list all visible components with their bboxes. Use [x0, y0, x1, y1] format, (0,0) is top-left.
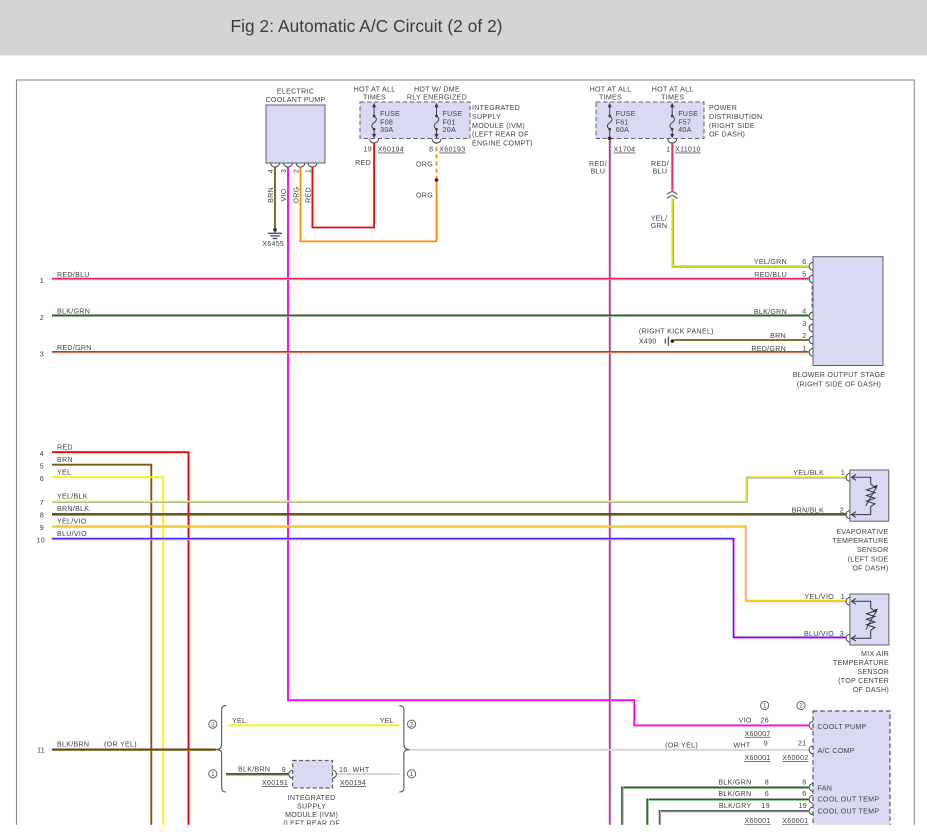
power distribution location note: [709, 104, 762, 139]
svg-text:HOT AT ALL: HOT AT ALL: [354, 85, 396, 93]
variant 2 marker right: [408, 720, 416, 728]
blower pin 5: [802, 270, 813, 283]
svg-text:BRN: BRN: [770, 332, 786, 340]
svg-text:8: 8: [429, 146, 433, 154]
svg-text:3: 3: [802, 320, 806, 328]
svg-text:8: 8: [802, 779, 806, 787]
svg-text:OF DASH): OF DASH): [852, 564, 888, 572]
svg-text:(OR YEL): (OR YEL): [665, 742, 698, 750]
harness brace left: [216, 706, 226, 792]
svg-text:SUPPLY: SUPPLY: [472, 113, 501, 121]
svg-text:RED: RED: [355, 159, 371, 167]
wire BLK/GRN to fan pin 8: [621, 787, 809, 832]
svg-text:X6455: X6455: [262, 240, 284, 248]
wire RED pump pin 1 to fuse F08: [304, 143, 375, 227]
wire BLK/GRN to cool out temp pin 6: [646, 798, 808, 832]
svg-text:MODULE (IVM): MODULE (IVM): [472, 122, 525, 130]
node 8 / wire BRN/BLK to evaporative sensor pin 2: [40, 505, 846, 519]
svg-text:FUSE: FUSE: [380, 110, 400, 118]
svg-text:MODULE (IVM): MODULE (IVM): [285, 811, 338, 819]
fuse F01 20A: [434, 103, 462, 139]
svg-text:20A: 20A: [443, 126, 456, 134]
connector X11010 pin 1: [666, 139, 701, 154]
harness brace right: [399, 706, 409, 792]
svg-text:OF DASH): OF DASH): [709, 131, 745, 139]
svg-text:FUSE: FUSE: [616, 110, 636, 118]
svg-text:10: 10: [37, 536, 45, 544]
node 11 / wire BLK/BRN into harness brace: [37, 741, 216, 755]
svg-text:6: 6: [765, 790, 769, 798]
connector labels X60001 X60001: [745, 817, 809, 825]
wire BLK/BRN variant 1 to X60191: [226, 765, 288, 775]
svg-text:OF DASH): OF DASH): [853, 686, 889, 694]
svg-text:2: 2: [802, 332, 806, 340]
svg-text:BRN: BRN: [57, 456, 73, 464]
svg-text:ENGINE COMPT): ENGINE COMPT): [472, 140, 533, 148]
node 6 / wire YEL down page: [40, 469, 163, 832]
svg-text:5: 5: [40, 463, 44, 471]
connector X60193 pin 8: [429, 139, 465, 154]
svg-text:TIMES: TIMES: [599, 94, 622, 102]
svg-text:Fig 2: Automatic A/C Circuit (: Fig 2: Automatic A/C Circuit (2 of 2): [231, 16, 503, 36]
splice junction on ORG wire: [435, 178, 439, 182]
svg-text:X60001: X60001: [745, 817, 771, 825]
svg-text:BRN/BLK: BRN/BLK: [57, 505, 89, 513]
coolant pump pin 26 X60007: [738, 717, 866, 738]
svg-text:6: 6: [40, 475, 44, 483]
svg-text:FUSE: FUSE: [678, 110, 698, 118]
svg-text:40A: 40A: [678, 126, 691, 134]
wire BRN pump pin 4 to ground: [267, 167, 275, 229]
svg-text:YEL: YEL: [57, 469, 71, 477]
svg-text:HOT AT ALL: HOT AT ALL: [590, 85, 632, 93]
pump pin 1: [304, 163, 317, 173]
svg-text:19: 19: [762, 802, 770, 810]
fuse F08 30A: [372, 103, 400, 139]
svg-text:BLK/GRN: BLK/GRN: [57, 308, 90, 316]
svg-text:19: 19: [799, 802, 807, 810]
svg-text:6: 6: [802, 790, 806, 798]
svg-text:WHT: WHT: [353, 766, 370, 774]
svg-text:ELECTRIC: ELECTRIC: [277, 87, 314, 95]
variant 1 marker left: [209, 770, 217, 778]
svg-text:6: 6: [802, 258, 806, 266]
svg-text:(RIGHT KICK PANEL): (RIGHT KICK PANEL): [639, 327, 714, 335]
svg-text:FUSE: FUSE: [443, 110, 463, 118]
svg-text:2: 2: [292, 169, 300, 173]
svg-text:1: 1: [802, 344, 806, 352]
wire ORG pump pin 2 to fuse F01: [292, 143, 437, 241]
wire RED/BLU from fuse F61 down page: [589, 140, 611, 832]
svg-text:SUPPLY: SUPPLY: [297, 803, 326, 811]
electric coolant pump (component box): [266, 87, 326, 163]
wire YEL/GRN break to blower pin 6: [651, 199, 809, 268]
svg-text:TIMES: TIMES: [661, 94, 684, 102]
svg-text:GRN: GRN: [651, 222, 668, 230]
svg-text:BLK/GRN: BLK/GRN: [718, 790, 751, 798]
svg-text:RED/BLU: RED/BLU: [754, 271, 787, 279]
svg-text:YEL/BLK: YEL/BLK: [57, 493, 88, 501]
evaporative temperature sensor (component box): [850, 470, 889, 521]
mix air sensor pin 1: [841, 593, 850, 605]
inline connector X60191 / X60194 (IVM): [262, 761, 366, 789]
svg-text:YEL/GRN: YEL/GRN: [754, 258, 787, 266]
svg-text:7: 7: [40, 499, 44, 507]
svg-text:19: 19: [364, 146, 372, 154]
blower output stage (component box): [793, 257, 886, 389]
fuse F61 60A: [607, 103, 635, 141]
node 9 / wire YEL/VIO to mix air sensor pin 1: [40, 517, 846, 601]
svg-text:SENSOR: SENSOR: [857, 668, 889, 676]
svg-text:DISTRIBUTION: DISTRIBUTION: [709, 113, 762, 121]
svg-text:2: 2: [840, 506, 844, 514]
wire WHT brace to A/C COMP pin: [410, 742, 809, 750]
svg-text:3: 3: [840, 630, 844, 638]
svg-text:(RIGHT SIDE OF DASH): (RIGHT SIDE OF DASH): [797, 381, 881, 389]
fuse F57 40A: [670, 103, 698, 139]
mix air temperature sensor (component box): [850, 594, 889, 645]
integrated supply module fuse box: [354, 85, 470, 138]
svg-text:BLK/GRY: BLK/GRY: [719, 802, 752, 810]
mix air sensor pin 3: [840, 630, 850, 642]
svg-text:BLK/BRN: BLK/BRN: [57, 741, 89, 749]
svg-text:3: 3: [40, 350, 44, 358]
svg-text:9: 9: [764, 740, 768, 748]
svg-text:A/C COMP: A/C COMP: [818, 747, 855, 755]
node 10 / wire BLU/VIO to mix air sensor pin 3: [37, 530, 846, 639]
svg-text:16: 16: [339, 766, 347, 774]
svg-text:X60007: X60007: [745, 730, 771, 738]
IVM bottom location note: [283, 794, 340, 828]
svg-text:INTEGRATED: INTEGRATED: [288, 794, 336, 802]
svg-text:BLOWER OUTPUT STAGE: BLOWER OUTPUT STAGE: [793, 371, 886, 379]
svg-text:RLY ENERGIZED: RLY ENERGIZED: [407, 94, 467, 102]
svg-text:1: 1: [841, 469, 845, 477]
svg-text:VIO: VIO: [738, 717, 751, 725]
svg-text:BLU/VIO: BLU/VIO: [57, 530, 87, 538]
svg-text:ORG: ORG: [416, 192, 433, 200]
power distribution fuse box: [590, 85, 704, 138]
svg-text:2: 2: [40, 314, 44, 322]
svg-text:COOLT PUMP: COOLT PUMP: [818, 723, 867, 731]
engine control connector block (dashed): [813, 711, 890, 832]
wire WHT X60194 to brace: [337, 773, 400, 775]
pump pin 3: [280, 163, 293, 173]
evap sensor location note: [832, 528, 888, 572]
svg-text:5: 5: [802, 270, 806, 278]
svg-text:1: 1: [304, 169, 312, 173]
wire VIO pump pin 3 to coolant pump connector (bottom right): [280, 167, 809, 725]
svg-text:8: 8: [765, 779, 769, 787]
svg-text:BLU/VIO: BLU/VIO: [804, 630, 834, 638]
svg-text:X11010: X11010: [675, 146, 701, 154]
svg-text:MIX AIR: MIX AIR: [861, 650, 889, 658]
node 3 / wire RED/GRN to blower pin 1: [40, 344, 809, 358]
svg-text:BRN/BLK: BRN/BLK: [792, 506, 824, 514]
blower pin 3: [802, 320, 813, 332]
svg-text:3: 3: [280, 169, 288, 173]
wire RED/BLU from fuse F57 to break: [651, 143, 673, 191]
svg-text:BLK/GRN: BLK/GRN: [754, 308, 787, 316]
svg-text:RED/GRN: RED/GRN: [751, 345, 786, 353]
svg-text:4: 4: [40, 450, 44, 458]
svg-text:RED/GRN: RED/GRN: [57, 344, 92, 352]
fan pin 8: [718, 779, 832, 793]
node 1 / wire RED/BLU to blower pin 5: [40, 271, 809, 285]
svg-text:EVAPORATIVE: EVAPORATIVE: [836, 528, 888, 536]
svg-text:BLU: BLU: [653, 168, 668, 176]
svg-text:POWER: POWER: [709, 104, 737, 112]
svg-text:(LEFT SIDE: (LEFT SIDE: [848, 555, 889, 563]
svg-text:9: 9: [40, 524, 44, 532]
svg-text:(RIGHT SIDE: (RIGHT SIDE: [709, 122, 755, 130]
svg-text:COOLANT PUMP: COOLANT PUMP: [266, 96, 326, 104]
svg-text:1: 1: [40, 277, 44, 285]
svg-text:RED: RED: [304, 187, 312, 203]
wire YEL variant 2: [228, 717, 400, 725]
svg-text:(TOP CENTER: (TOP CENTER: [838, 677, 889, 685]
svg-text:X60194: X60194: [340, 779, 366, 787]
variant marker 1 column: [761, 701, 769, 709]
svg-text:1: 1: [841, 593, 845, 601]
svg-text:X490: X490: [639, 337, 657, 345]
variant 1 marker right: [408, 770, 416, 778]
svg-text:HOT AT ALL: HOT AT ALL: [652, 85, 694, 93]
blower pin 1: [802, 344, 813, 356]
cool out temp pin 6: [718, 790, 879, 804]
blower pin 2: [802, 332, 813, 344]
evap sensor pin 1: [841, 469, 850, 481]
svg-text:60A: 60A: [616, 126, 629, 134]
svg-text:WHT: WHT: [734, 742, 751, 750]
node 5 / wire BRN down page: [40, 456, 152, 832]
svg-text:BLK/GRN: BLK/GRN: [718, 779, 751, 787]
svg-text:8: 8: [40, 512, 44, 520]
svg-text:X60193: X60193: [439, 146, 465, 154]
node 7 / wire YEL/BLK to evaporative sensor pin 1: [40, 477, 846, 507]
svg-text:4: 4: [802, 308, 806, 316]
mix air sensor thermistor symbol: [851, 598, 877, 641]
pump pin 2: [292, 163, 305, 173]
svg-text:X60194: X60194: [378, 146, 404, 154]
svg-text:(OR YEL): (OR YEL): [104, 741, 137, 749]
bottom clip: [0, 825, 927, 832]
label pin 16 WHT: [339, 766, 370, 774]
IVM location note: [472, 104, 533, 148]
svg-text:ORG: ORG: [292, 187, 300, 204]
wire BLK/GRY to cool out temp pin 19: [659, 810, 809, 832]
svg-text:4: 4: [267, 169, 275, 173]
connector X490 (right kick panel): [639, 327, 714, 345]
svg-text:SENSOR: SENSOR: [857, 546, 889, 554]
svg-text:COOL OUT TEMP: COOL OUT TEMP: [818, 808, 880, 816]
svg-text:YEL: YEL: [380, 717, 394, 725]
a/c compressor pins 9 / 21: [745, 740, 855, 762]
svg-text:X60001: X60001: [745, 754, 771, 762]
evap sensor thermistor symbol: [851, 474, 877, 517]
blower pin 6: [802, 258, 813, 270]
variant 2 marker left: [209, 720, 217, 728]
node 4 / wire RED down page: [40, 444, 189, 832]
svg-text:HOT W/ DME: HOT W/ DME: [414, 85, 460, 93]
title banner: [0, 0, 927, 55]
svg-text:YEL/VIO: YEL/VIO: [804, 593, 834, 601]
pump pin 4: [267, 163, 280, 173]
svg-text:BRN: BRN: [267, 187, 275, 203]
svg-text:1: 1: [666, 146, 670, 154]
svg-text:YEL/VIO: YEL/VIO: [57, 517, 87, 525]
cool out temp pin 19: [719, 802, 879, 816]
svg-text:YEL: YEL: [232, 717, 246, 725]
svg-text:X60002: X60002: [782, 754, 808, 762]
svg-text:X1704: X1704: [614, 146, 636, 154]
svg-text:9: 9: [282, 766, 286, 774]
variant marker 2 column: [797, 701, 805, 709]
svg-text:X60191: X60191: [262, 779, 288, 787]
svg-text:30A: 30A: [380, 126, 393, 134]
svg-text:21: 21: [798, 740, 806, 748]
svg-text:TIMES: TIMES: [363, 94, 386, 102]
svg-text:COOL OUT TEMP: COOL OUT TEMP: [818, 796, 880, 804]
svg-text:TEMPERATURE: TEMPERATURE: [832, 537, 888, 545]
svg-text:VIO: VIO: [280, 188, 288, 201]
svg-text:BLU: BLU: [591, 168, 606, 176]
svg-text:INTEGRATED: INTEGRATED: [472, 104, 520, 112]
svg-text:FAN: FAN: [818, 785, 833, 793]
svg-text:ORG: ORG: [416, 161, 433, 169]
wire BRN X490 to blower pin 2: [674, 339, 808, 341]
svg-text:RED/BLU: RED/BLU: [57, 271, 90, 279]
svg-text:X60001: X60001: [782, 817, 808, 825]
node 2 / wire BLK/GRN to blower pin 4: [40, 308, 809, 322]
ground X6455: [262, 228, 284, 248]
svg-text:11: 11: [37, 747, 45, 755]
wire break symbol: [667, 192, 677, 199]
evap sensor pin 2: [840, 506, 850, 518]
svg-text:BLK/BRN: BLK/BRN: [238, 765, 270, 773]
svg-text:(LEFT REAR OF: (LEFT REAR OF: [472, 131, 529, 139]
blower pin 4: [802, 308, 813, 320]
svg-text:RED: RED: [57, 444, 73, 452]
mix air sensor location note: [833, 650, 889, 694]
connector X60194 pin 19: [364, 139, 404, 154]
svg-text:TEMPERATURE: TEMPERATURE: [833, 659, 889, 667]
svg-text:YEL/BLK: YEL/BLK: [793, 469, 824, 477]
svg-text:26: 26: [761, 717, 769, 725]
